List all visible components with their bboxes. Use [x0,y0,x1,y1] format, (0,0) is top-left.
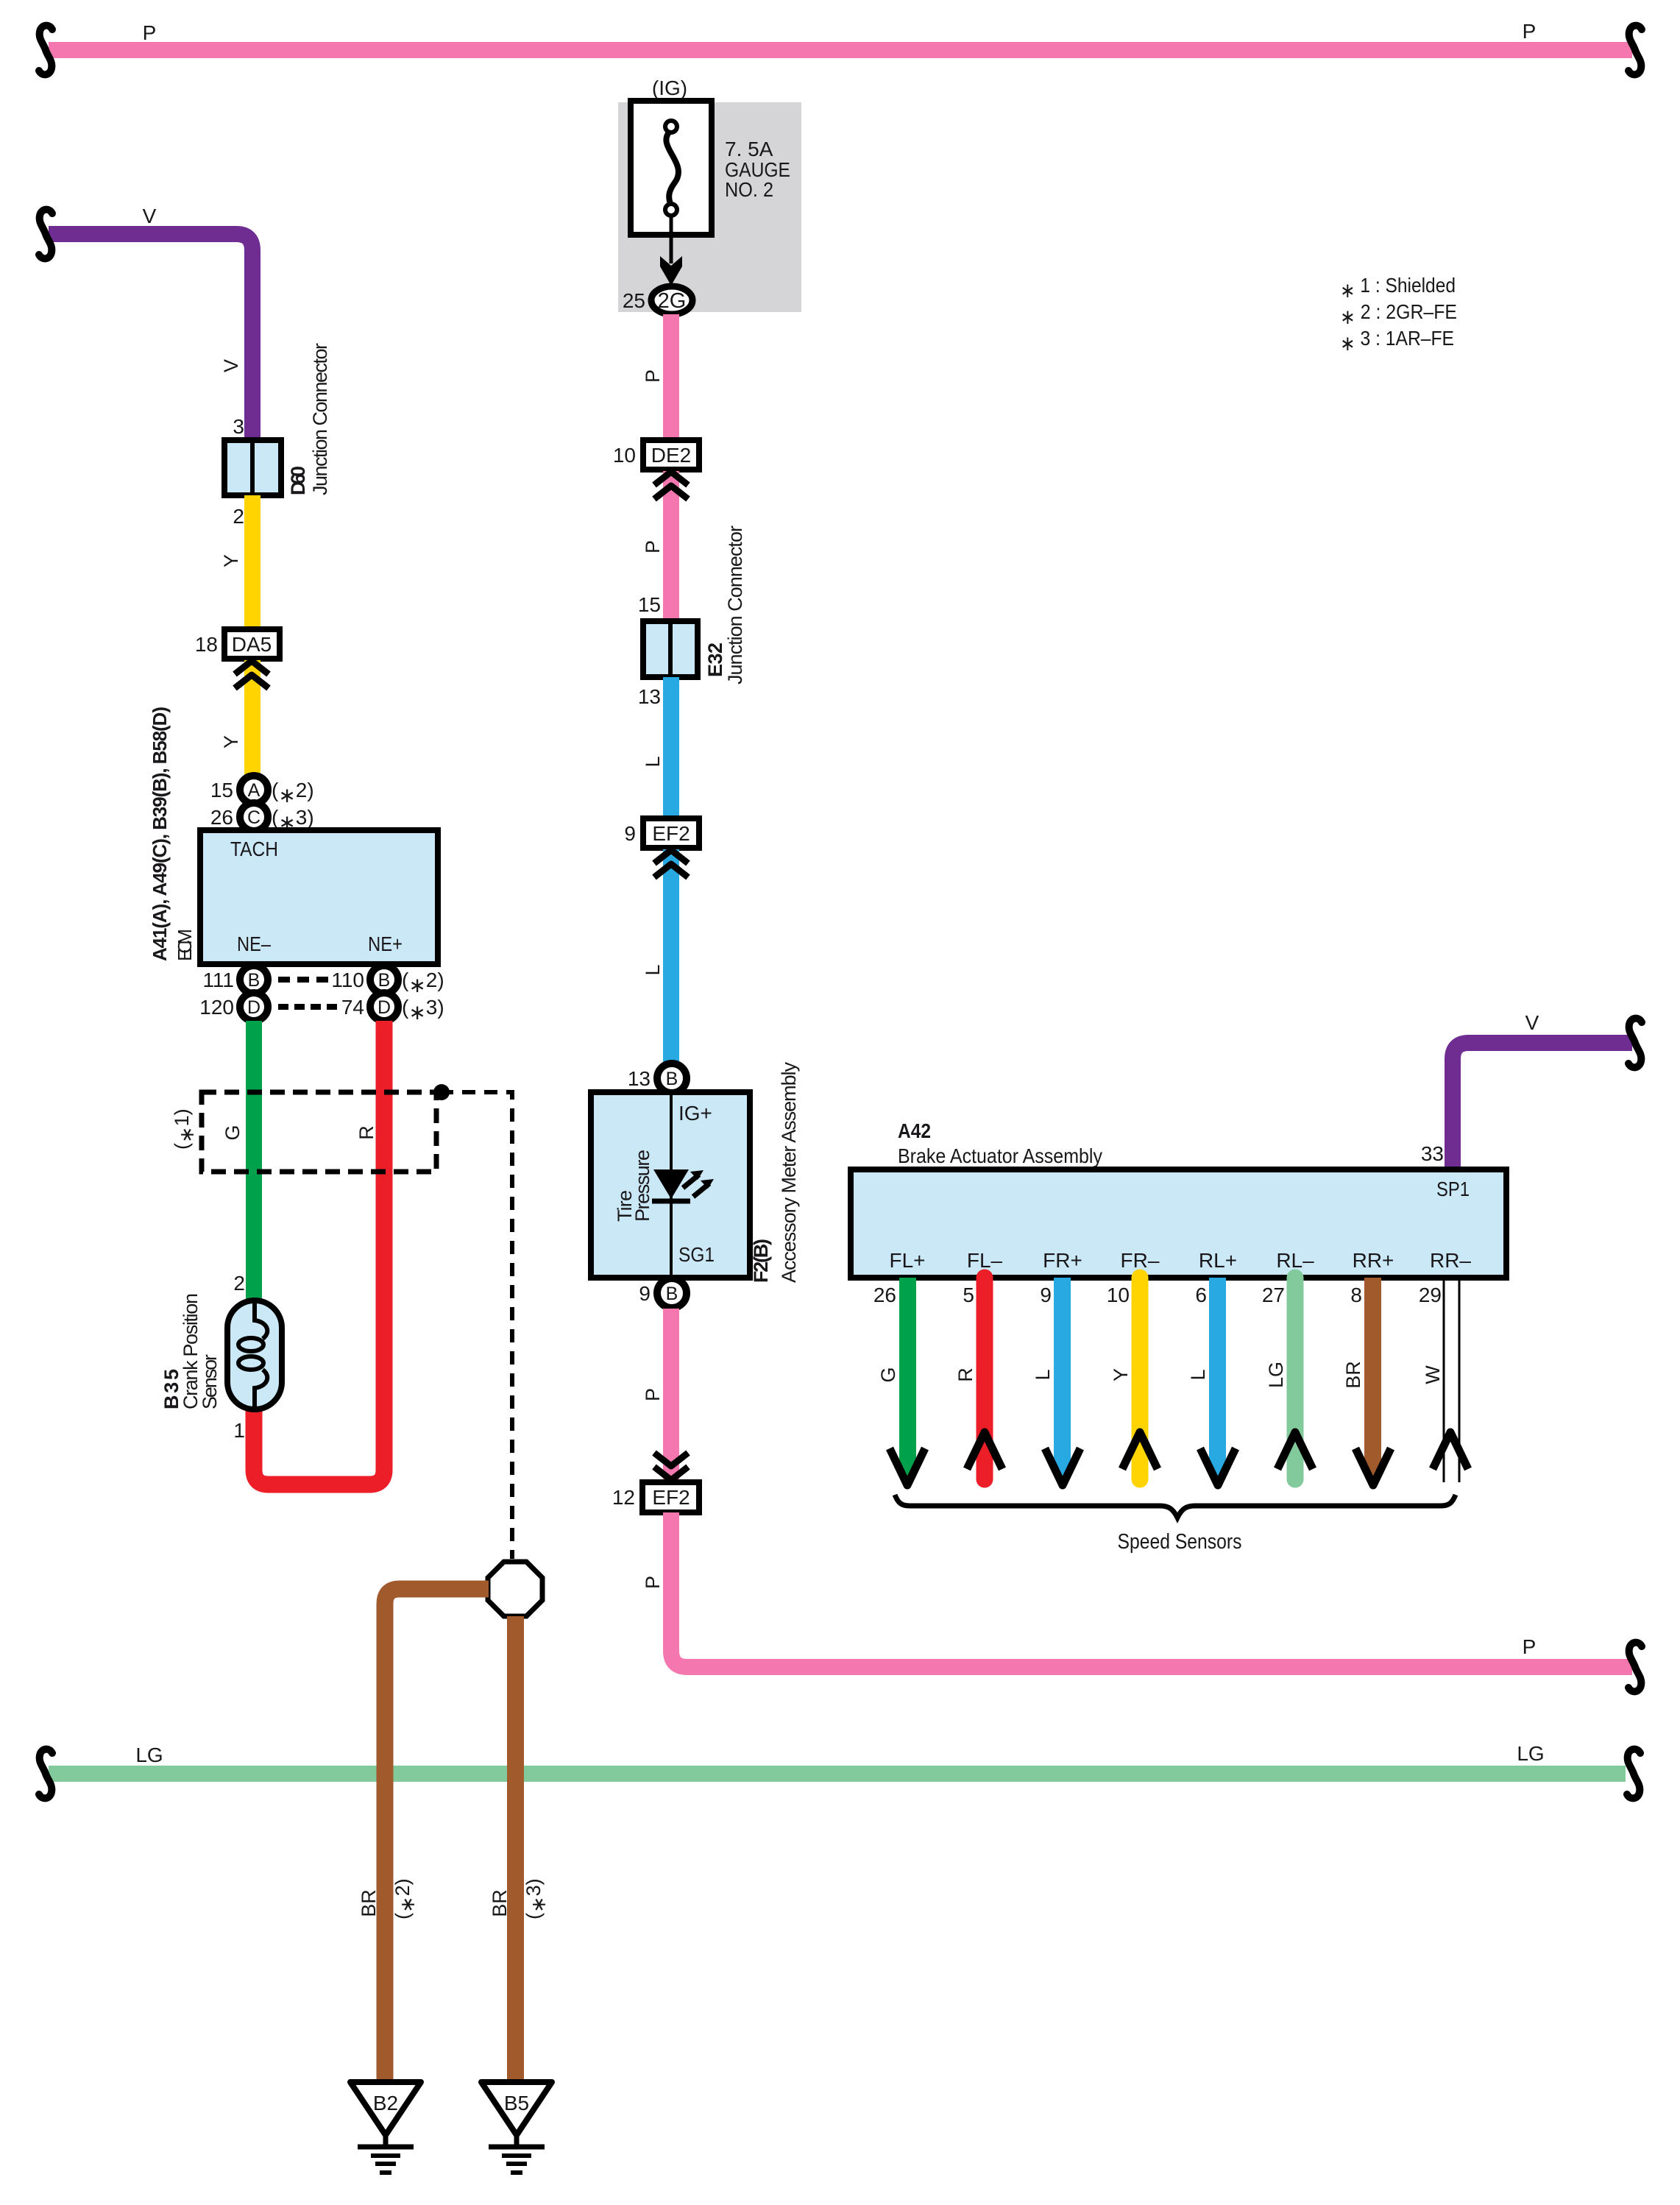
speed sensor wire FL+ G [873,1278,925,1485]
pin 74 circle D (*3) [341,993,444,1024]
svg-text:D: D [247,997,260,1018]
svg-text:B2: B2 [373,2092,398,2114]
speed sensor wire RL- LG [1262,1278,1313,1479]
wire R crank sensor to ECM [233,1021,384,1484]
svg-text:DE2: DE2 [651,444,691,467]
svg-text:12: 12 [612,1486,635,1509]
svg-text:3: 3 [233,415,244,438]
LED tire pressure [614,1062,800,1284]
svg-text:15: 15 [638,593,661,616]
ECM box [149,707,438,964]
svg-text:Y: Y [220,735,242,748]
svg-text:RL–: RL– [1276,1249,1314,1272]
svg-text:9: 9 [624,822,636,845]
svg-text:33: 33 [1421,1142,1444,1165]
svg-text:13: 13 [638,685,661,708]
svg-text:6: 6 [1195,1284,1207,1306]
svg-text:29: 29 [1419,1284,1442,1306]
pin 111 circle B [202,966,268,994]
legend notes [1340,274,1457,355]
svg-text:Brake Actuator Assembly: Brake Actuator Assembly [898,1144,1102,1167]
wire G ECM to crank sensor [221,1021,262,1302]
svg-text:110: 110 [331,969,364,991]
svg-text:B: B [666,1069,678,1089]
pin 26 circle C (*3) [210,803,314,834]
pin 9 circle B [639,1278,687,1308]
svg-text:B: B [248,970,260,991]
svg-text:9: 9 [639,1282,651,1305]
svg-text:26: 26 [210,806,233,829]
accessory meter assembly F2(B) [591,1092,750,1278]
svg-text:DA5: DA5 [232,633,272,656]
svg-text:P: P [642,540,664,553]
brake actuator assembly A42 [851,1119,1506,1278]
svg-text:RR–: RR– [1430,1249,1471,1272]
dashes between pin rows [278,980,337,1007]
wire Y D60 to DA5 [220,495,260,629]
svg-text:V: V [1525,1011,1539,1034]
svg-text:L: L [642,964,664,975]
svg-text:R: R [355,1125,378,1140]
svg-text:L: L [1032,1369,1054,1380]
shield drain dashed line [440,1092,512,1559]
speed sensor wire FL- R [954,1278,1002,1479]
svg-text:B5: B5 [504,2092,529,2114]
svg-text:RR+: RR+ [1353,1249,1394,1272]
svg-text:2G: 2G [658,289,687,313]
svg-text:8: 8 [1350,1284,1362,1306]
connector DE2 pin 10 [613,440,699,470]
svg-text:26: 26 [873,1284,896,1306]
svg-text:V: V [220,359,242,372]
wire BR *2 octagon to ground B2 [358,1589,489,2081]
svg-text:FR–: FR– [1121,1249,1160,1272]
svg-text:D: D [378,997,391,1018]
svg-text:2: 2 [233,505,244,528]
svg-text:Junction Connector: Junction Connector [309,343,331,495]
junction connector D60 [224,343,331,528]
svg-text:Speed Sensors: Speed Sensors [1118,1530,1242,1554]
svg-text:LG: LG [135,1744,163,1766]
wire V right to A42 pin 33 [1421,1011,1642,1169]
svg-text:FL–: FL– [967,1249,1003,1272]
svg-text:A: A [248,780,260,801]
svg-text:G: G [221,1125,244,1140]
svg-text:C: C [247,807,260,828]
svg-text:L: L [1187,1369,1209,1380]
speed sensors brace [895,1495,1456,1554]
ground B2 [350,2082,421,2173]
wire L EF2 to meter [642,849,688,1064]
svg-text:111: 111 [202,969,234,991]
svg-text:P: P [1523,1635,1537,1658]
fuse 7.5A GAUGE NO.2 block [618,77,801,312]
svg-text:F2(B): F2(B) [750,1239,772,1283]
svg-text:RL+: RL+ [1199,1249,1237,1272]
svg-text:FL+: FL+ [889,1249,925,1272]
svg-text:74: 74 [341,996,364,1019]
svg-text:LG: LG [1517,1742,1544,1765]
svg-text:P: P [642,1576,664,1589]
wire P meter to EF2 12 [642,1309,688,1482]
svg-text:SG1: SG1 [678,1243,715,1266]
svg-text:A41(A), A49(C), B39(B), B58(D): A41(A), A49(C), B39(B), B58(D) [149,707,171,961]
crank position sensor B35 [160,1293,282,1409]
connector DA5 pin 18 [195,629,280,659]
svg-text:13: 13 [628,1067,651,1090]
svg-text:Accessory Meter Assembly: Accessory Meter Assembly [778,1062,800,1284]
svg-text:A42: A42 [898,1119,931,1142]
svg-text:NO. 2: NO. 2 [725,178,773,201]
svg-text:P: P [143,21,157,44]
svg-text:Pressure: Pressure [631,1150,653,1222]
svg-text:FR+: FR+ [1043,1249,1082,1272]
ground B5 [481,2082,552,2173]
svg-text:ECM: ECM [174,929,196,961]
pin 15 circle A (*2) [210,776,314,807]
svg-text:V: V [143,205,157,227]
wire V left bus [39,205,252,440]
wire P top bus [39,20,1642,74]
shield junction dot [433,1084,450,1100]
svg-text:5: 5 [963,1284,974,1306]
svg-text:Y: Y [1110,1368,1132,1381]
svg-text:BR: BR [489,1889,511,1917]
svg-text:18: 18 [195,633,218,656]
svg-text:D60: D60 [287,466,309,495]
svg-text:P: P [642,1388,664,1401]
svg-text:NE–: NE– [237,932,271,955]
wire P DE2 to E32 [638,471,688,621]
pin 120 circle D [199,993,268,1021]
wire P EF2 12 to bottom bus [642,1512,1642,1691]
svg-text:Y: Y [220,554,242,567]
speed sensor wire RR- W [1419,1278,1468,1482]
svg-text:W: W [1422,1365,1444,1384]
svg-text:10: 10 [1107,1284,1130,1306]
speed sensor wire FR+ L [1032,1278,1080,1485]
svg-text:EF2: EF2 [652,822,690,845]
svg-text:9: 9 [1040,1284,1052,1306]
svg-text:L: L [642,756,664,767]
speed sensor wire FR- Y [1107,1278,1158,1479]
connector 2G pin 25 [623,286,692,314]
svg-text:1: 1 [233,1419,245,1442]
svg-text:Junction Connector: Junction Connector [724,525,746,684]
svg-text:E32: E32 [704,643,726,677]
svg-text:NE+: NE+ [368,932,403,955]
svg-text:BR: BR [1342,1361,1364,1389]
wire LG bottom bus [39,1742,1640,1798]
junction connector E32 [638,525,746,708]
svg-text:15: 15 [210,779,233,801]
wire Y DA5 to ECM [220,660,269,776]
pin 13 circle B [628,1063,687,1093]
svg-text:P: P [1523,20,1537,43]
svg-text:2: 2 [233,1272,245,1295]
shield octagon [488,1562,542,1616]
svg-text:Sensor: Sensor [199,1354,221,1409]
svg-text:B: B [666,1284,678,1304]
svg-text:TACH: TACH [230,838,278,860]
speed sensor wire RR+ BR [1342,1278,1391,1485]
svg-text:7. 5A: 7. 5A [725,138,773,160]
wire P 2G to DE2 [642,314,679,440]
svg-text:B: B [378,970,391,991]
svg-text:G: G [877,1367,899,1382]
wire BR *3 octagon to ground B5 [489,1616,550,2081]
svg-text:27: 27 [1262,1284,1285,1306]
svg-text:BR: BR [358,1889,380,1917]
svg-text:IG+: IG+ [678,1102,712,1125]
shield dashed box (*1) [171,1092,436,1172]
pin 110 circle B (*2) [331,966,444,997]
speed sensor wire RL+ L [1187,1278,1236,1485]
svg-text:P: P [642,369,664,383]
svg-text:25: 25 [623,289,645,312]
svg-text:R: R [954,1367,977,1382]
svg-text:SP1: SP1 [1436,1178,1470,1200]
connector EF2 pin 12 [612,1482,699,1512]
svg-text:EF2: EF2 [652,1486,690,1509]
svg-text:10: 10 [613,444,636,467]
svg-text:LG: LG [1265,1362,1287,1388]
connector EF2 pin 9 [624,818,699,848]
svg-text:120: 120 [199,996,234,1019]
svg-text:(IG): (IG) [652,77,687,99]
wire L E32 to EF2 [642,677,679,818]
